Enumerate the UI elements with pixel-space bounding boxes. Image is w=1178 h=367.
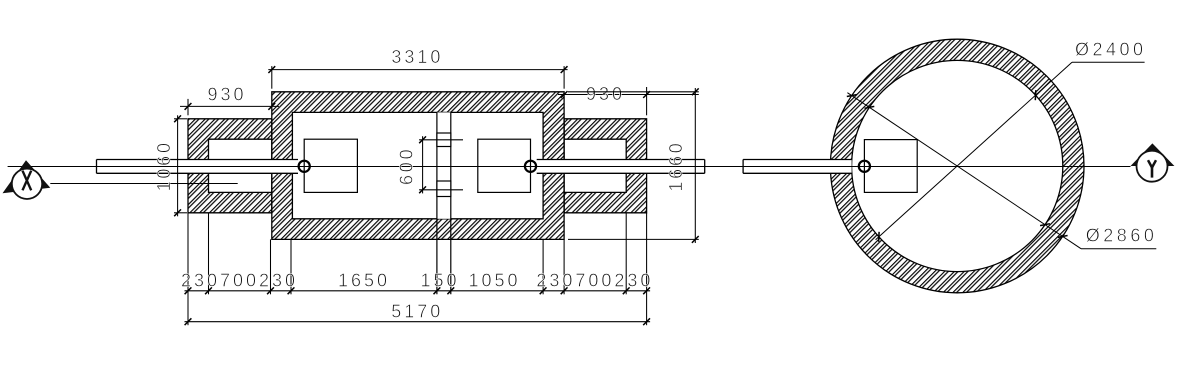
svg-text:1650: 1650 [338, 271, 390, 291]
svg-text:1660: 1660 [666, 140, 686, 191]
svg-text:Ø2400: Ø2400 [1075, 39, 1147, 59]
svg-text:930: 930 [586, 84, 625, 104]
svg-text:600: 600 [396, 147, 416, 185]
svg-text:1050: 1050 [468, 271, 520, 291]
svg-text:230700230: 230700230 [181, 271, 298, 291]
svg-text:3310: 3310 [391, 47, 443, 67]
svg-text:930: 930 [207, 85, 246, 105]
svg-text:1060: 1060 [154, 140, 174, 191]
svg-text:Ø2860: Ø2860 [1086, 226, 1158, 246]
svg-text:230700230: 230700230 [536, 271, 653, 291]
svg-text:5170: 5170 [391, 302, 443, 322]
svg-text:150: 150 [420, 271, 459, 291]
